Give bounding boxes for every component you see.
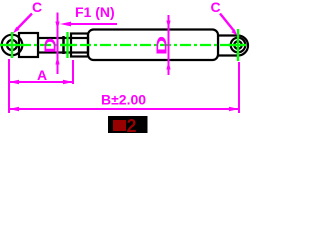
svg-text:A: A — [37, 67, 47, 83]
figure label glyph block — [113, 120, 126, 131]
label C left — [32, 0, 42, 15]
force arrow F1 — [60, 22, 117, 27]
label B tolerance — [101, 92, 146, 108]
gland collar — [71, 34, 88, 57]
figure label digit 2 — [127, 116, 137, 136]
dim extension line A right — [72, 60, 74, 84]
svg-text:D: D — [42, 38, 60, 54]
rod nut — [62, 36, 65, 54]
centerline main axis — [0, 44, 246, 46]
leader C right — [220, 14, 238, 36]
right end housing — [218, 36, 248, 56]
dimension D tube line — [166, 15, 170, 75]
right eyelet ring — [231, 38, 246, 53]
dimension D rod line — [55, 13, 59, 75]
svg-text:D: D — [153, 36, 170, 55]
left eyelet crosshair — [0, 32, 24, 58]
svg-text:C: C — [211, 0, 221, 15]
label A — [37, 67, 47, 83]
dimension A line — [9, 80, 73, 84]
dim extension line B right — [238, 62, 240, 113]
left eyelet ring — [2, 35, 23, 56]
dimension B line — [9, 107, 239, 111]
right eyelet crosshair — [228, 29, 246, 61]
svg-text:F1 (N): F1 (N) — [75, 4, 115, 20]
piston reference cross — [60, 32, 75, 58]
leader C left — [13, 14, 32, 34]
label F1 (N) — [75, 4, 115, 20]
label D tube rotated — [153, 36, 170, 55]
svg-text:B±2.00: B±2.00 — [101, 92, 146, 108]
rod end block — [19, 33, 38, 57]
rod — [38, 38, 88, 53]
svg-text:C: C — [32, 0, 42, 15]
dim extension line left — [8, 59, 10, 113]
cylinder tube — [88, 30, 218, 61]
label D rod rotated — [42, 38, 60, 54]
label C right — [211, 0, 221, 15]
svg-text:2: 2 — [127, 116, 137, 135]
figure label box — [108, 116, 148, 133]
